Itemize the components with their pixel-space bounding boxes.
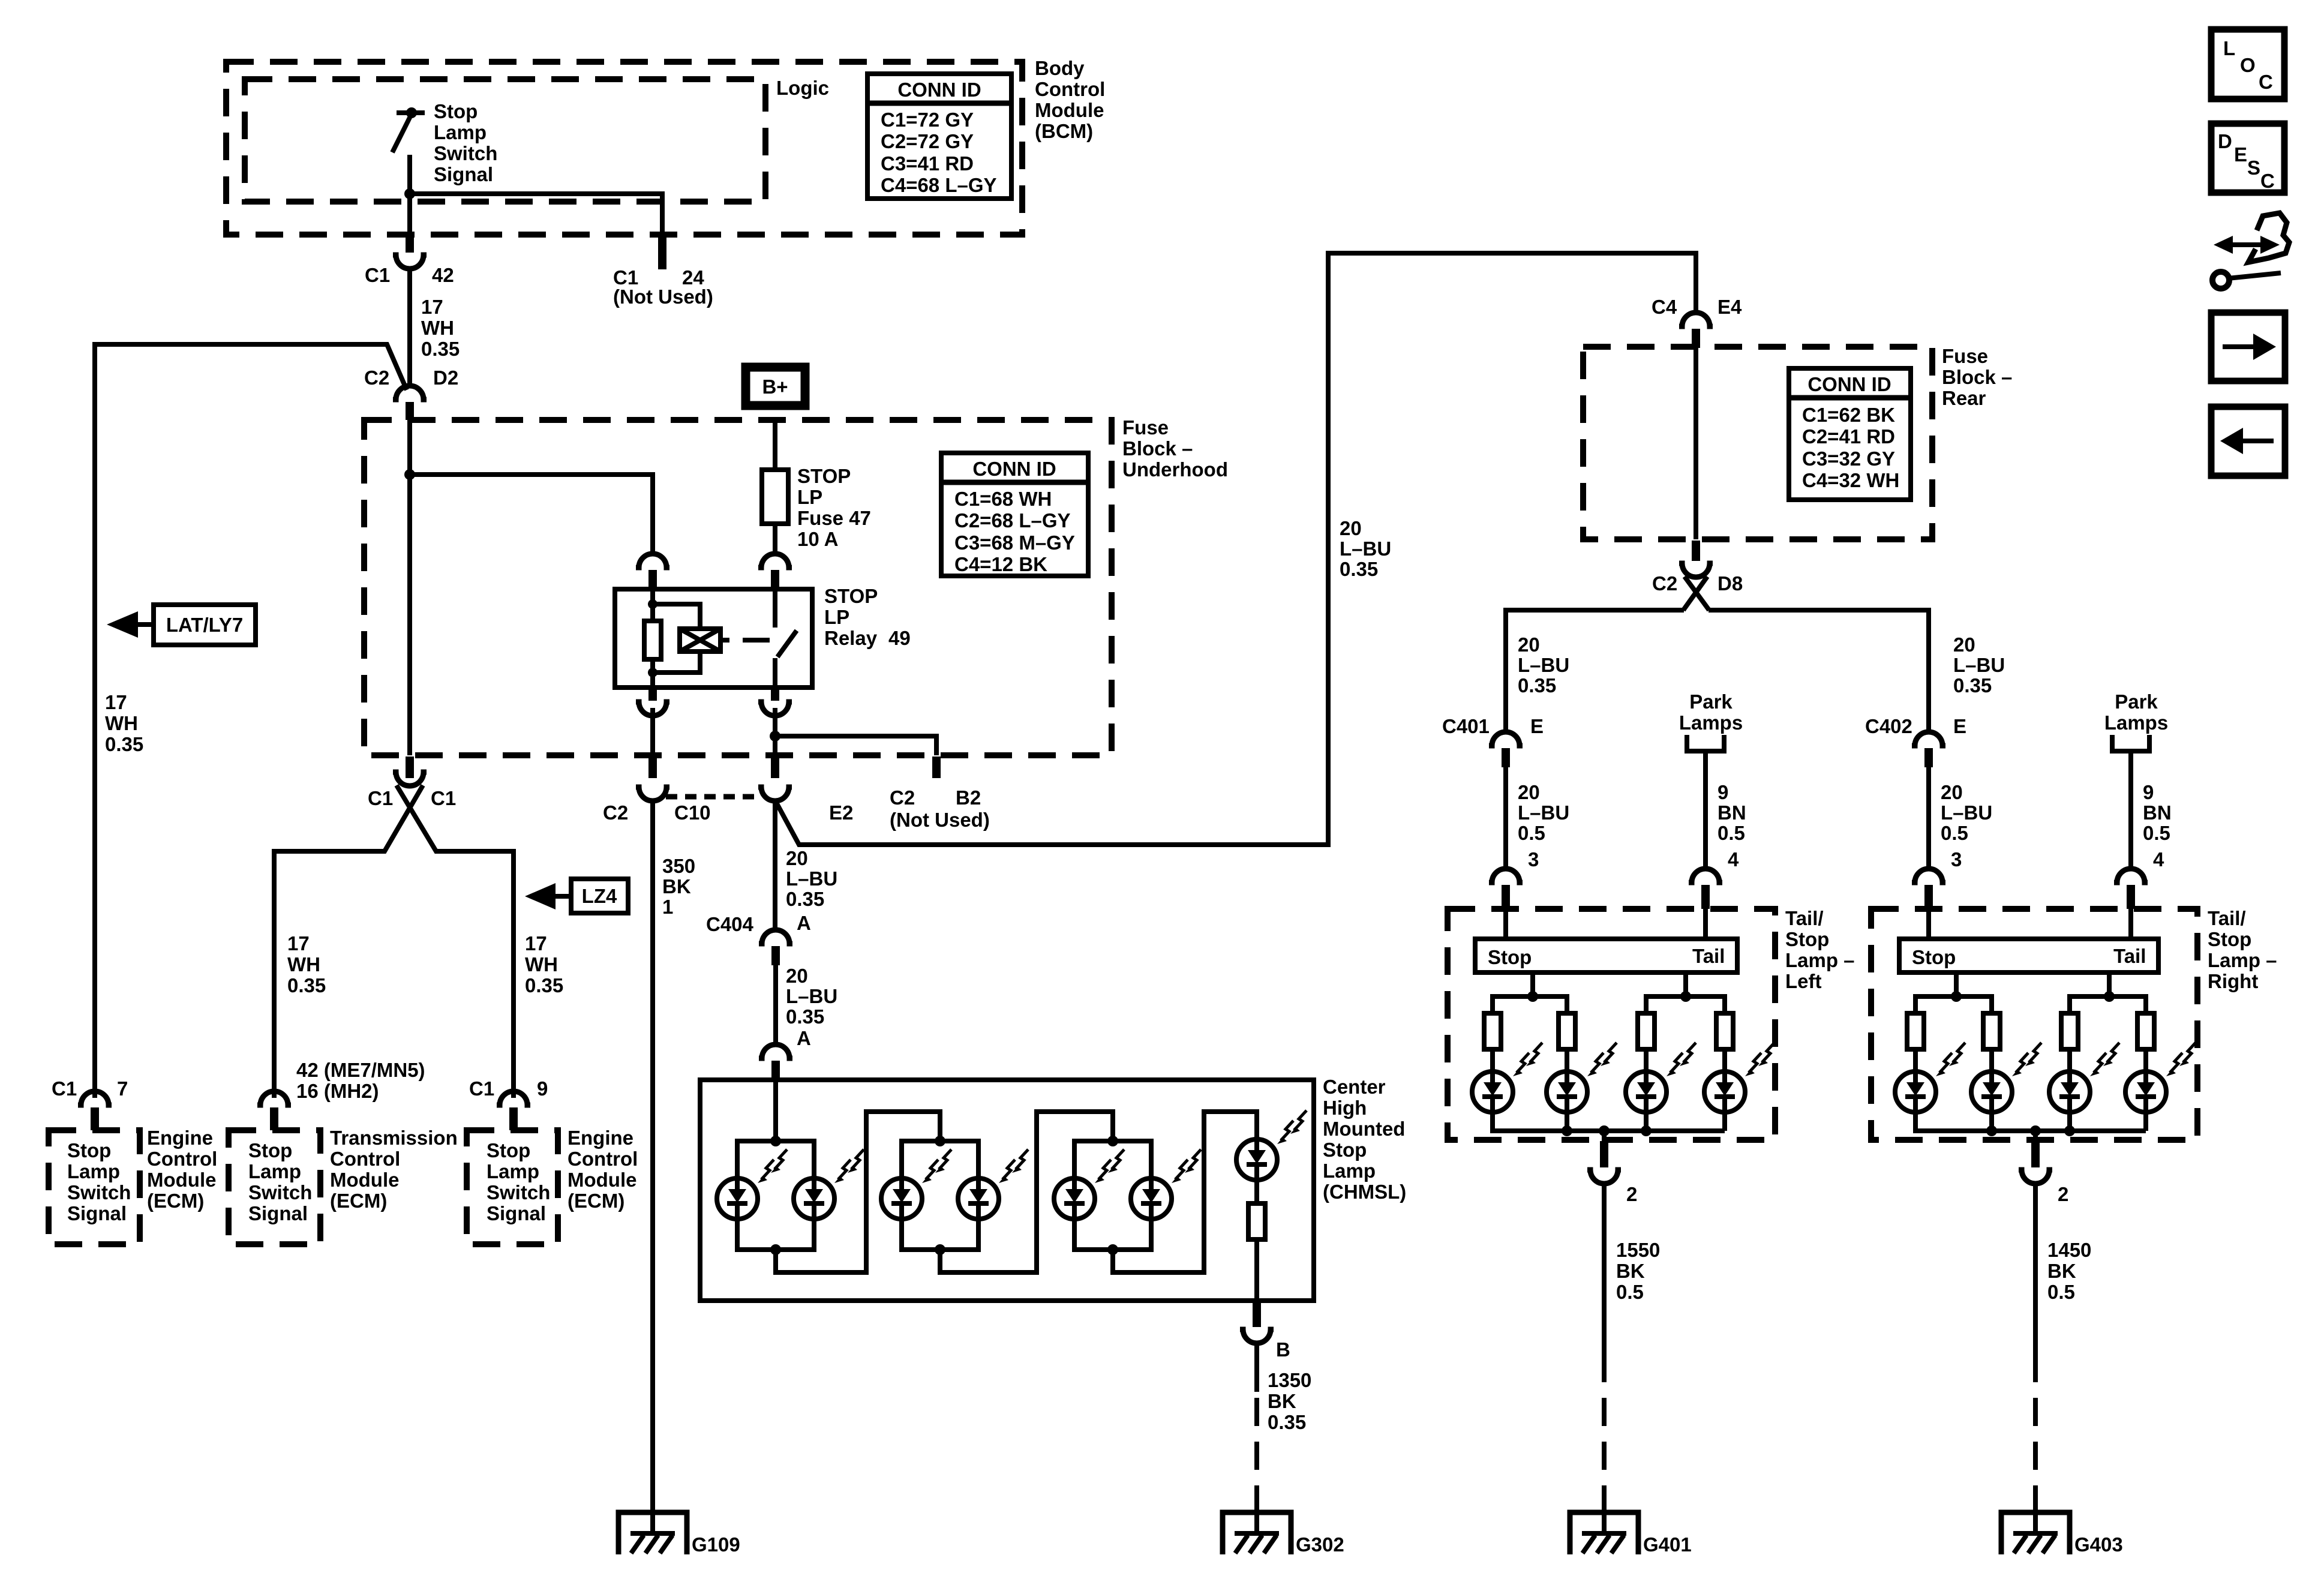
svg-text:WH: WH (525, 953, 558, 975)
svg-text:BK: BK (662, 875, 691, 897)
LED D5 (1054, 1149, 1124, 1219)
Engine Control Module (ECM) label right (568, 1127, 638, 1212)
ECM right connector cup (497, 1091, 530, 1105)
svg-text:Module: Module (568, 1169, 636, 1191)
wire B+ to fuse (773, 419, 777, 470)
svg-text:Stop: Stop (67, 1139, 111, 1161)
svg-text:C: C (2260, 170, 2275, 192)
svg-text:Park: Park (1689, 691, 1733, 713)
svg-text:Stop: Stop (1785, 928, 1829, 950)
svg-text:C401: C401 (1442, 715, 1490, 737)
node pair2 bottom (935, 1244, 945, 1255)
Engine Control Module (ECM) label left (147, 1127, 217, 1212)
svg-text:Lamp: Lamp (248, 1160, 301, 1182)
svg-text:9: 9 (1718, 781, 1728, 803)
svg-text:Mounted: Mounted (1323, 1118, 1405, 1140)
svg-text:Tail: Tail (2113, 945, 2146, 967)
resistor R1 left lamp (1484, 1013, 1501, 1049)
connector C2 C10 cup (636, 787, 669, 801)
stop feed drop left (1530, 972, 1535, 996)
svg-text:LP: LP (824, 606, 849, 628)
LED pair 1 bracket (737, 1141, 814, 1250)
CHMSL resistor (1248, 1203, 1265, 1239)
svg-text:0.35: 0.35 (1268, 1411, 1306, 1433)
dashed wire to G302 (1254, 1398, 1259, 1531)
svg-text:Stop: Stop (2208, 928, 2251, 950)
wire 17 WH 0.35 label left branch (287, 932, 326, 996)
wire C404 to CHMSL (773, 965, 778, 1045)
svg-text:Control: Control (1035, 78, 1105, 100)
LZ4 reference box (571, 879, 628, 913)
svg-text:3: 3 (1528, 848, 1539, 870)
wire E2 branch to fuse block rear (775, 253, 1696, 845)
svg-text:Stop: Stop (1488, 946, 1532, 968)
svg-text:Signal: Signal (487, 1202, 546, 1224)
svg-text:Stop: Stop (434, 100, 478, 122)
node bottom bar right 1 (1986, 1125, 1997, 1136)
LED D4 (958, 1149, 1028, 1219)
svg-text:C2=72 GY: C2=72 GY (881, 130, 974, 152)
stub E2 (771, 757, 779, 778)
wire C402 to pin 3 (1926, 767, 1931, 869)
node pair2 top (935, 1136, 945, 1146)
B+ battery feed box (746, 367, 805, 406)
svg-text:Transmission: Transmission (330, 1127, 458, 1149)
CONN ID table underhood (941, 453, 1088, 576)
CHMSL feed wire (773, 1081, 778, 1141)
wire 9 BN 0.5 label right (2143, 781, 2172, 844)
svg-text:A: A (797, 1027, 811, 1049)
node tail feed left (1680, 991, 1691, 1002)
wire 20 L-BU 0.35 label above C404 (786, 847, 837, 910)
node stop feed left (1527, 991, 1538, 1002)
svg-text:Switch: Switch (434, 142, 497, 164)
wire 17 WH 0.35 label far left (105, 691, 143, 755)
svg-text:Underhood: Underhood (1122, 458, 1228, 481)
resistor R7 right lamp (2061, 1013, 2078, 1049)
svg-text:0.35: 0.35 (786, 888, 824, 910)
node junction BCM (404, 188, 415, 199)
wire D8 to left lamp riser (1506, 610, 1684, 733)
ground G302 (1223, 1512, 1291, 1554)
svg-text:0.35: 0.35 (1518, 674, 1556, 697)
Fuse Block Underhood label (1122, 416, 1228, 481)
svg-text:Module: Module (330, 1169, 399, 1191)
svg-text:C1: C1 (365, 264, 390, 286)
link pair2 to pair3 (940, 1112, 1113, 1272)
svg-text:E4: E4 (1718, 296, 1742, 318)
TCM connector cup (257, 1091, 291, 1105)
svg-text:G109: G109 (692, 1533, 740, 1556)
relay bottom right stub (771, 688, 779, 701)
Y split wires to TCM and ECM (274, 785, 514, 1098)
svg-text:C1=72 GY: C1=72 GY (881, 109, 974, 131)
DESC icon box (2211, 124, 2284, 193)
svg-text:1450: 1450 (2047, 1239, 2091, 1261)
tail pair bracket right lamp (2070, 996, 2146, 1071)
svg-text:C: C (2259, 71, 2273, 93)
svg-text:BK: BK (1616, 1260, 1645, 1282)
connector C2 D8 labels (1652, 572, 1743, 595)
ECM left dashed box (49, 1130, 140, 1244)
TCM pin labels 42 (ME7/MN5) 16 (MH2) (296, 1059, 425, 1102)
connector C401 stub (1502, 748, 1510, 767)
svg-text:C402: C402 (1865, 715, 1912, 737)
relay coil pin stub (648, 570, 657, 589)
wire switch to junction (407, 155, 412, 235)
wire branch to LAT/LY7 side (95, 344, 407, 1098)
svg-text:0.35: 0.35 (1953, 674, 1992, 697)
LED L5 right lamp (1895, 1043, 1965, 1112)
pin 3 cup left lamp (1489, 869, 1523, 882)
svg-text:E: E (2234, 143, 2247, 166)
svg-text:C2: C2 (890, 786, 915, 809)
svg-text:Park: Park (2115, 691, 2158, 713)
svg-text:C1: C1 (52, 1077, 77, 1100)
fuse labels (797, 465, 871, 550)
wire C401 to pin 3 (1503, 767, 1508, 869)
wire D8 to right lamp riser (1709, 610, 1929, 733)
svg-text:0.5: 0.5 (1518, 822, 1545, 844)
svg-text:Tail: Tail (1692, 945, 1725, 967)
TCM connector stub (270, 1107, 278, 1130)
svg-text:20: 20 (1953, 634, 1975, 656)
wire 20 L-BU 0.5 label left (1518, 781, 1569, 844)
wires pins into stop tail bar right (1929, 909, 2131, 939)
svg-text:C4=12 BK: C4=12 BK (954, 553, 1047, 575)
wire 1550 BK 0.5 (1602, 1183, 1607, 1354)
resistor R3 left lamp (1638, 1013, 1655, 1049)
LOC icon box (2211, 29, 2284, 99)
svg-text:(ECM): (ECM) (147, 1190, 204, 1212)
svg-text:Fuse 47: Fuse 47 (797, 507, 871, 529)
connector C2 D8 stub (1692, 541, 1700, 561)
connector C402 E cup (1912, 732, 1945, 746)
svg-text:0.35: 0.35 (105, 733, 143, 755)
ground G109 (618, 1512, 687, 1554)
LZ4 arrow (553, 894, 571, 899)
node stop feed right (1951, 991, 1962, 1002)
Tail Stop Lamp Left dashed box (1448, 909, 1775, 1140)
pin 3 stub right (1924, 885, 1933, 909)
ECM left Stop Lamp Switch Signal (67, 1139, 131, 1224)
Fuse Block Underhood dashed box (364, 420, 1112, 755)
svg-text:C4=32 WH: C4=32 WH (1802, 469, 1899, 491)
svg-text:D8: D8 (1718, 572, 1743, 595)
svg-text:2: 2 (1626, 1183, 1637, 1205)
D8 split X wires (1683, 577, 1709, 610)
svg-text:Tail/: Tail/ (1785, 907, 1824, 929)
relay switch blade (775, 631, 797, 688)
connector C404 cup (759, 930, 792, 944)
svg-text:Lamp –: Lamp – (1785, 949, 1855, 971)
svg-text:0.35: 0.35 (1340, 558, 1378, 580)
wire 350 BK 1 to G109 (650, 800, 655, 1531)
ground drop left lamp (1602, 1131, 1607, 1141)
resistor R5 right lamp (1907, 1013, 1924, 1049)
node pair3 bottom (1107, 1244, 1118, 1255)
wire 1450 BK 0.5 (2033, 1183, 2038, 1354)
fuse STOP LP Fuse 47 10 A (773, 470, 777, 524)
connector C401 E labels (1442, 715, 1544, 737)
svg-text:Lamp –: Lamp – (2208, 949, 2277, 971)
svg-text:(BCM): (BCM) (1035, 120, 1093, 142)
svg-text:(Not Used): (Not Used) (890, 809, 990, 831)
wire C1 to C2 (407, 268, 412, 386)
svg-text:STOP: STOP (797, 465, 851, 487)
svg-text:CONN ID: CONN ID (1807, 373, 1891, 395)
stop lamp switch pivot dot (406, 107, 417, 118)
wire relay to E2 and B2 (775, 708, 936, 755)
wire 9 BN 0.5 label left (1718, 781, 1746, 844)
svg-text:C4=68 L–GY: C4=68 L–GY (881, 174, 997, 196)
svg-text:E2: E2 (829, 801, 853, 824)
svg-text:Stop: Stop (1323, 1139, 1367, 1161)
svg-text:Left: Left (1785, 970, 1822, 992)
ECM right dashed box (467, 1130, 558, 1244)
stop feed drop right (1954, 972, 1959, 996)
dotted connector link C10 to E2 (666, 794, 761, 800)
svg-text:C3=32 GY: C3=32 GY (1802, 448, 1895, 470)
LED D1 (717, 1149, 787, 1219)
svg-text:10 A: 10 A (797, 528, 838, 550)
node pair1 bottom (770, 1244, 781, 1255)
svg-text:G401: G401 (1643, 1533, 1692, 1556)
stub B2 not used (932, 757, 941, 778)
wire park lamps to pin 4 left (1703, 751, 1708, 869)
svg-text:L–BU: L–BU (786, 985, 837, 1007)
svg-text:Stop: Stop (248, 1139, 292, 1161)
svg-text:LZ4: LZ4 (582, 885, 617, 907)
svg-text:7: 7 (117, 1077, 128, 1100)
svg-text:G403: G403 (2074, 1533, 2123, 1556)
svg-text:BN: BN (1718, 801, 1746, 824)
LED L8 right lamp (2125, 1043, 2196, 1112)
svg-text:C2: C2 (603, 801, 628, 824)
wire 20 L-BU 0.35 label tall riser (1340, 517, 1391, 580)
pin 24 stub (658, 235, 666, 269)
CHMSL output stub (1253, 1302, 1261, 1327)
pin 2 stub left (1600, 1141, 1608, 1167)
relay bottom left cup (636, 702, 669, 716)
LED L1 left lamp (1472, 1043, 1542, 1112)
svg-text:Control: Control (568, 1148, 638, 1170)
svg-text:C2=68 L–GY: C2=68 L–GY (954, 509, 1071, 532)
wire 1550 BK 0.5 label (1616, 1239, 1660, 1303)
relay labels (824, 585, 911, 649)
wire junction to relay coil (410, 420, 653, 755)
svg-text:0.35: 0.35 (525, 974, 563, 996)
svg-text:Logic: Logic (776, 77, 829, 99)
pin 4 cup right lamp (2114, 869, 2148, 882)
Body Control Module (BCM) outer dashed box (226, 62, 1022, 235)
resistor R6 right lamp (1983, 1013, 2000, 1049)
wire 1350 BK 0.35 (1254, 1343, 1259, 1392)
connector C402 stub (1924, 748, 1933, 767)
Transmission Control Module (ECM) label (330, 1127, 458, 1212)
connector C4 E4 labels (1652, 296, 1742, 318)
resistor R4 left lamp (1716, 1013, 1733, 1049)
svg-text:Stop: Stop (487, 1139, 530, 1161)
connector C4 E4 stub (1692, 329, 1700, 348)
svg-text:20: 20 (1518, 781, 1540, 803)
wire through fuse block rear (1694, 347, 1698, 539)
ECM right connector stub (509, 1107, 518, 1130)
relay bottom left stub (648, 688, 657, 701)
Stop Tail terminal bar right (1899, 939, 2158, 972)
svg-text:BK: BK (2047, 1260, 2076, 1282)
wire E2 down (773, 800, 777, 930)
wire 17 WH 0.35 label (421, 296, 460, 360)
svg-text:L–BU: L–BU (1518, 801, 1569, 824)
resistor R2 left lamp (1559, 1013, 1575, 1049)
svg-text:O: O (2240, 54, 2256, 76)
svg-text:C4: C4 (1652, 296, 1677, 318)
wire fuse to relay (773, 524, 777, 554)
LED L2 left lamp (1547, 1043, 1617, 1112)
svg-text:C3=68 M–GY: C3=68 M–GY (954, 532, 1075, 554)
svg-text:Tail/: Tail/ (2208, 907, 2246, 929)
relay coil resistor (644, 621, 661, 659)
svg-text:L–BU: L–BU (1953, 654, 2005, 676)
svg-text:Right: Right (2208, 970, 2258, 992)
LED D7 (1236, 1110, 1307, 1180)
CHMSL label (1323, 1076, 1406, 1203)
svg-text:Signal: Signal (248, 1202, 308, 1224)
svg-text:Engine: Engine (568, 1127, 633, 1149)
link pair3 to last LED (1113, 1112, 1257, 1272)
svg-text:4: 4 (2153, 848, 2164, 870)
svg-text:BK: BK (1268, 1390, 1296, 1412)
connector E2 cup (758, 787, 792, 801)
Stop Lamp Switch Signal label (434, 100, 497, 185)
svg-text:Lamp: Lamp (434, 121, 487, 143)
svg-text:Relay: Relay (824, 627, 878, 649)
svg-text:3: 3 (1951, 848, 1962, 870)
Tail Stop Lamp Left label (1785, 907, 1855, 992)
pin 3 cup right lamp (1912, 869, 1945, 882)
connector C404 stub (771, 946, 780, 965)
Park Lamps feed symbol left (1687, 735, 1724, 751)
ground G403 (2001, 1512, 2070, 1554)
svg-text:E: E (1953, 715, 1966, 737)
svg-text:Block –: Block – (1942, 366, 2012, 388)
svg-text:Rear: Rear (1942, 387, 1986, 409)
svg-text:Switch: Switch (67, 1181, 131, 1203)
svg-text:49: 49 (888, 627, 911, 649)
wire 350 BK 1 label (662, 855, 695, 918)
relay coil node bottom (648, 668, 657, 677)
LED pair 2 bracket (902, 1141, 978, 1250)
wire relay to C2 C10 (650, 708, 655, 755)
connector C402 E labels (1865, 715, 1966, 737)
Park Lamps label right (2104, 691, 2168, 734)
connector C1 42 cup (393, 255, 427, 269)
stop pair bracket left lamp (1493, 996, 1725, 1131)
svg-text:4: 4 (1728, 848, 1739, 870)
svg-text:L–BU: L–BU (1518, 654, 1569, 676)
Tail Stop Lamp Right label (2208, 907, 2277, 992)
svg-text:Lamp: Lamp (1323, 1160, 1376, 1182)
harness repair icon (2212, 213, 2289, 289)
svg-text:E: E (1530, 715, 1544, 737)
svg-text:Control: Control (147, 1148, 217, 1170)
LED L3 left lamp (1626, 1043, 1696, 1112)
LED pair 3 bracket (1074, 1141, 1151, 1250)
pin 2 stub right (2031, 1141, 2040, 1167)
svg-text:0.5: 0.5 (1941, 822, 1968, 844)
Park Lamps feed symbol right (2112, 735, 2149, 751)
tail feed drop right (2107, 972, 2112, 996)
stub C10 at relay coil return (648, 757, 657, 778)
wire 20 L-BU 0.35 label right (1953, 634, 2005, 697)
wires pins into stop tail bar left (1506, 909, 1706, 939)
svg-text:B+: B+ (762, 376, 788, 398)
dashed wire to G403 (2033, 1354, 2038, 1531)
CHMSL box (700, 1080, 1314, 1301)
svg-text:Lamps: Lamps (2104, 712, 2168, 734)
connector C2 D2 labels (364, 367, 458, 389)
wire 20 L-BU 0.35 label below C404 (786, 965, 837, 1028)
svg-text:Signal: Signal (434, 163, 493, 185)
connector C401 E cup (1489, 732, 1523, 746)
svg-text:17: 17 (105, 691, 127, 713)
connector C1 42 stub (406, 235, 414, 253)
svg-text:0.35: 0.35 (421, 338, 460, 360)
connector B cup (1240, 1329, 1274, 1343)
svg-text:C2: C2 (364, 367, 389, 389)
svg-text:350: 350 (662, 855, 695, 877)
svg-text:Fuse: Fuse (1122, 416, 1169, 439)
svg-text:42 (ME7/MN5): 42 (ME7/MN5) (296, 1059, 425, 1081)
svg-text:Control: Control (330, 1148, 400, 1170)
svg-text:20: 20 (786, 965, 808, 987)
ECM left connector cup (78, 1091, 112, 1105)
svg-text:Lamp: Lamp (487, 1160, 539, 1182)
connector C1 42 labels (365, 264, 454, 286)
pin 3 stub left (1502, 885, 1510, 909)
link pair1 to pair2 (776, 1112, 940, 1272)
relay switch pin stub (771, 570, 779, 589)
pin 4 cup left lamp (1689, 869, 1722, 882)
connector C2 D2 stub (406, 402, 414, 420)
svg-text:D2: D2 (433, 367, 458, 389)
svg-text:17: 17 (421, 296, 443, 318)
TCM dashed box (229, 1130, 320, 1244)
svg-text:D: D (2218, 130, 2232, 152)
svg-text:Module: Module (147, 1169, 216, 1191)
ECM right pin labels C1 9 (469, 1077, 548, 1100)
svg-text:Body: Body (1035, 57, 1085, 79)
svg-text:C2=41 RD: C2=41 RD (1802, 425, 1895, 448)
svg-text:LAT/LY7: LAT/LY7 (166, 614, 243, 636)
relay switch pin cup (758, 554, 792, 568)
svg-text:20: 20 (786, 847, 808, 869)
svg-text:Switch: Switch (248, 1181, 312, 1203)
node relay output junction (770, 731, 780, 742)
wire 17 WH 0.35 label right branch (525, 932, 563, 996)
connector A cup at CHMSL (759, 1044, 792, 1058)
LAT/LY7 arrow (136, 622, 154, 627)
svg-text:S: S (2247, 157, 2260, 179)
stop pair bracket right lamp (1915, 996, 2146, 1131)
connector C2 D8 cup (1679, 563, 1713, 577)
ground drop right lamp (2033, 1131, 2038, 1141)
svg-text:C1=68 WH: C1=68 WH (954, 488, 1052, 510)
LED L4 left lamp (1704, 1043, 1774, 1112)
svg-text:C1: C1 (431, 787, 456, 809)
relay coil parallel link (653, 604, 700, 673)
